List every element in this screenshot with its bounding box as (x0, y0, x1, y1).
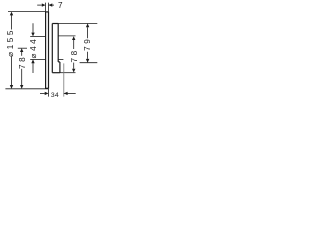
wire right extension y62.7 (80, 62, 98, 64)
wire right extension y35.9 (58, 35, 75, 37)
svg-text:7: 7 (58, 1, 63, 10)
plate slab side view (46, 12, 49, 89)
wire right extension y59.4 short (58, 58, 63, 60)
dimension 34 bottom (40, 63, 76, 96)
svg-text:⌀44: ⌀44 (29, 37, 38, 59)
svg-text:79: 79 (83, 37, 92, 51)
svg-text:34: 34 (51, 92, 59, 99)
dimension 78 left (18, 47, 27, 49)
dimension D155 left (11, 15, 13, 86)
svg-text:⌀155: ⌀155 (6, 28, 15, 57)
dimension 79 far right (87, 27, 89, 59)
svg-text:78: 78 (18, 55, 27, 69)
wire bottom extension line y88.8 (5, 88, 48, 90)
dimension 78 right (73, 40, 75, 69)
wire bottom right extension y72.7 (60, 72, 76, 74)
wire top right extension y23.4 (58, 22, 97, 24)
dimension D44 middle (30, 23, 45, 73)
wire top extension line y11.6 (8, 11, 46, 13)
svg-text:78: 78 (70, 48, 79, 62)
knob profile (52, 24, 60, 73)
dimension 7 top (37, 3, 54, 12)
